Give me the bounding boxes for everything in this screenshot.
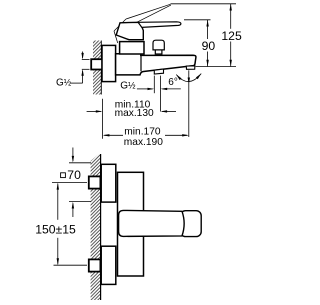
handle blade plan bbox=[119, 210, 185, 236]
body/spout joint line bbox=[140, 55, 142, 71]
handle grip (closed position) bbox=[116, 22, 143, 39]
diverter knob stem bbox=[155, 49, 162, 54]
125 top/bottom arrows bbox=[230, 4, 232, 11]
sq70 leader line / 150 upper extension bbox=[52, 182, 87, 184]
svg-text:90: 90 bbox=[202, 39, 216, 53]
G1/2 arrows at inlet bbox=[81, 53, 83, 60]
extension line spout outlet level bbox=[196, 66, 236, 68]
left G1/2 extension lines bbox=[82, 59, 90, 61]
wall face line bbox=[100, 41, 102, 95]
wall face line plan bbox=[100, 154, 102, 300]
handle raised position (thin lines) bbox=[114, 4, 171, 43]
svg-text:70: 70 bbox=[67, 168, 81, 182]
wall (hatched) plan view bbox=[91, 153, 100, 300]
sq70 arrows bbox=[72, 156, 74, 163]
150 lower extension bbox=[54, 264, 88, 266]
handle end cap plan bbox=[181, 211, 202, 237]
arrowheads bottom view bbox=[57, 156, 75, 265]
aerator outlet under spout tip bbox=[186, 66, 195, 70]
faucet body and spout (side view) bbox=[116, 54, 196, 75]
angle arc 6deg bbox=[176, 74, 201, 82]
square symbol of sq70 bbox=[61, 173, 66, 178]
svg-text:G½: G½ bbox=[56, 77, 72, 88]
cartridge housing bbox=[120, 42, 144, 54]
6deg right arrow line bbox=[162, 88, 180, 90]
dimension line 90 bbox=[207, 20, 209, 39]
upper inlet connector plan bbox=[89, 176, 101, 188]
sq70 arrow lines bbox=[72, 148, 74, 162]
dimension line 125 bbox=[230, 4, 232, 29]
faucet body plan bbox=[118, 172, 144, 276]
texts top view bbox=[202, 29, 242, 53]
middle G1/2 leader arrow line bbox=[137, 88, 153, 90]
min110 arrows (outside, pointing in) bbox=[96, 110, 103, 112]
6deg left arrowhead bbox=[161, 88, 168, 90]
small down arrow on outlet axis bbox=[188, 78, 190, 85]
90 top/bottom arrows bbox=[206, 20, 208, 27]
150 arrows bbox=[57, 183, 59, 190]
lower inlet connector plan bbox=[89, 259, 101, 271]
G1/2 leader arrowhead bbox=[148, 88, 155, 90]
handle lever blade (closed position) bbox=[138, 22, 181, 28]
svg-text:150±15: 150±15 bbox=[35, 222, 76, 236]
wall (hatched) top view bbox=[93, 41, 101, 95]
extension line top of open handle (125) bbox=[171, 3, 237, 5]
svg-text:6°: 6° bbox=[168, 77, 178, 88]
diverter knob cap bbox=[153, 40, 164, 50]
arrowheads top view bbox=[81, 4, 232, 137]
svg-text:max.190: max.190 bbox=[124, 137, 163, 148]
shower outlet extension lines bbox=[153, 76, 155, 94]
svg-text:max.130: max.130 bbox=[115, 108, 154, 119]
arc arrowheads bbox=[176, 74, 182, 80]
extension line top of closed lever (90) bbox=[184, 19, 211, 21]
svg-text:125: 125 bbox=[221, 29, 242, 43]
svg-text:G½: G½ bbox=[120, 81, 136, 92]
dimension line min110/max130 bbox=[87, 110, 101, 112]
escutcheon flange (side view) bbox=[102, 45, 116, 81]
texts bottom view bbox=[35, 168, 81, 236]
min170 arrows (inside, pointing out) bbox=[103, 134, 110, 136]
spout outlet axis extension line bbox=[188, 70, 190, 137]
lower escutcheon plan bbox=[101, 246, 116, 284]
left G1/2 arrow lines bbox=[82, 52, 84, 59]
wall face extension line bbox=[102, 99, 104, 139]
inlet connector G1/2 (side view) bbox=[91, 59, 102, 69]
shower hose outlet G1/2 under body bbox=[154, 69, 163, 74]
dimension line 150+-15 bbox=[57, 184, 59, 220]
dimension line min170/max190 bbox=[104, 134, 123, 136]
upper escutcheon plan bbox=[101, 164, 116, 202]
sq70 extension lines bbox=[69, 162, 91, 164]
